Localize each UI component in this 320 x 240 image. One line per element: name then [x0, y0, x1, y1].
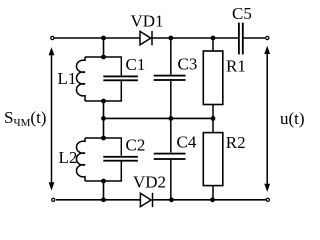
- tank 1 top wire: [85, 56, 122, 58]
- diode VD2: [140, 193, 152, 207]
- svg-text:VD2: VD2: [133, 173, 166, 192]
- resistor R2: [203, 118, 223, 199]
- capacitor C4: [154, 118, 186, 199]
- wire: tank2 bottom to bottom rail: [103, 181, 105, 200]
- output terminal bottom (open circle): [266, 198, 269, 201]
- svg-text:R1: R1: [226, 57, 246, 76]
- junction tank1 top: [101, 55, 106, 60]
- top rail wire right: VD1 cathode to C5 left plate: [152, 37, 239, 39]
- top rail wire: C5 right plate to output terminal: [243, 37, 266, 39]
- svg-text:u(t): u(t): [280, 109, 305, 128]
- input terminal bottom (open circle): [52, 198, 55, 201]
- capacitor C1: [103, 57, 138, 101]
- junction tank2 top: [101, 136, 106, 141]
- junction middle rail at tank column: [101, 116, 106, 121]
- capacitor C5: [238, 23, 244, 55]
- junction tank2 bottom: [101, 179, 106, 184]
- junction top rail at C3: [168, 36, 173, 41]
- bottom rail wire left: input terminal to VD2 anode: [56, 199, 140, 201]
- svg-text:C4: C4: [177, 133, 197, 152]
- top rail wire left: input terminal to VD1 anode: [55, 37, 140, 39]
- svg-text:C1: C1: [126, 55, 146, 74]
- tank 2 top wire: [85, 137, 122, 139]
- bottom rail wire right: VD2 cathode to output terminal: [153, 199, 267, 201]
- junction bottom rail at C4: [169, 197, 174, 202]
- middle rail wire: [104, 117, 214, 119]
- input terminal top (open circle): [51, 36, 54, 39]
- inductor L2: [76, 138, 85, 181]
- output voltage double arrow: [264, 46, 270, 192]
- junction middle rail at R1/R2: [211, 116, 216, 121]
- svg-text:L1: L1: [58, 69, 77, 88]
- output terminal top (open circle): [266, 36, 269, 39]
- svg-text:C3: C3: [178, 55, 198, 74]
- svg-text:SЧМ(t): SЧМ(t): [4, 108, 46, 129]
- svg-text:VD1: VD1: [131, 12, 164, 31]
- input voltage double arrow: [49, 47, 55, 190]
- resistor R1: [203, 38, 223, 118]
- junction top rail at R1: [211, 36, 216, 41]
- diode VD1: [140, 31, 152, 45]
- capacitor C2: [103, 138, 138, 181]
- svg-text:R2: R2: [226, 133, 246, 152]
- inductor L1: [76, 57, 85, 101]
- wire: tank1 bottom to middle rail: [103, 101, 105, 118]
- tank 1 bottom wire: [85, 100, 122, 102]
- svg-text:C2: C2: [126, 136, 146, 155]
- junction top rail at tank1: [101, 36, 106, 41]
- wire: top rail to tank1 top: [103, 38, 105, 57]
- wire: middle rail to tank2 top: [103, 118, 105, 138]
- capacitor C3: [154, 38, 186, 118]
- svg-text:C5: C5: [232, 4, 252, 23]
- junction bottom rail at tank column: [101, 197, 106, 202]
- svg-text:L2: L2: [59, 148, 78, 167]
- tank 2 bottom wire: [85, 180, 122, 182]
- junction bottom rail at R2: [210, 197, 215, 202]
- junction middle rail at C3/C4: [168, 116, 173, 121]
- junction tank1 bottom: [101, 99, 106, 104]
